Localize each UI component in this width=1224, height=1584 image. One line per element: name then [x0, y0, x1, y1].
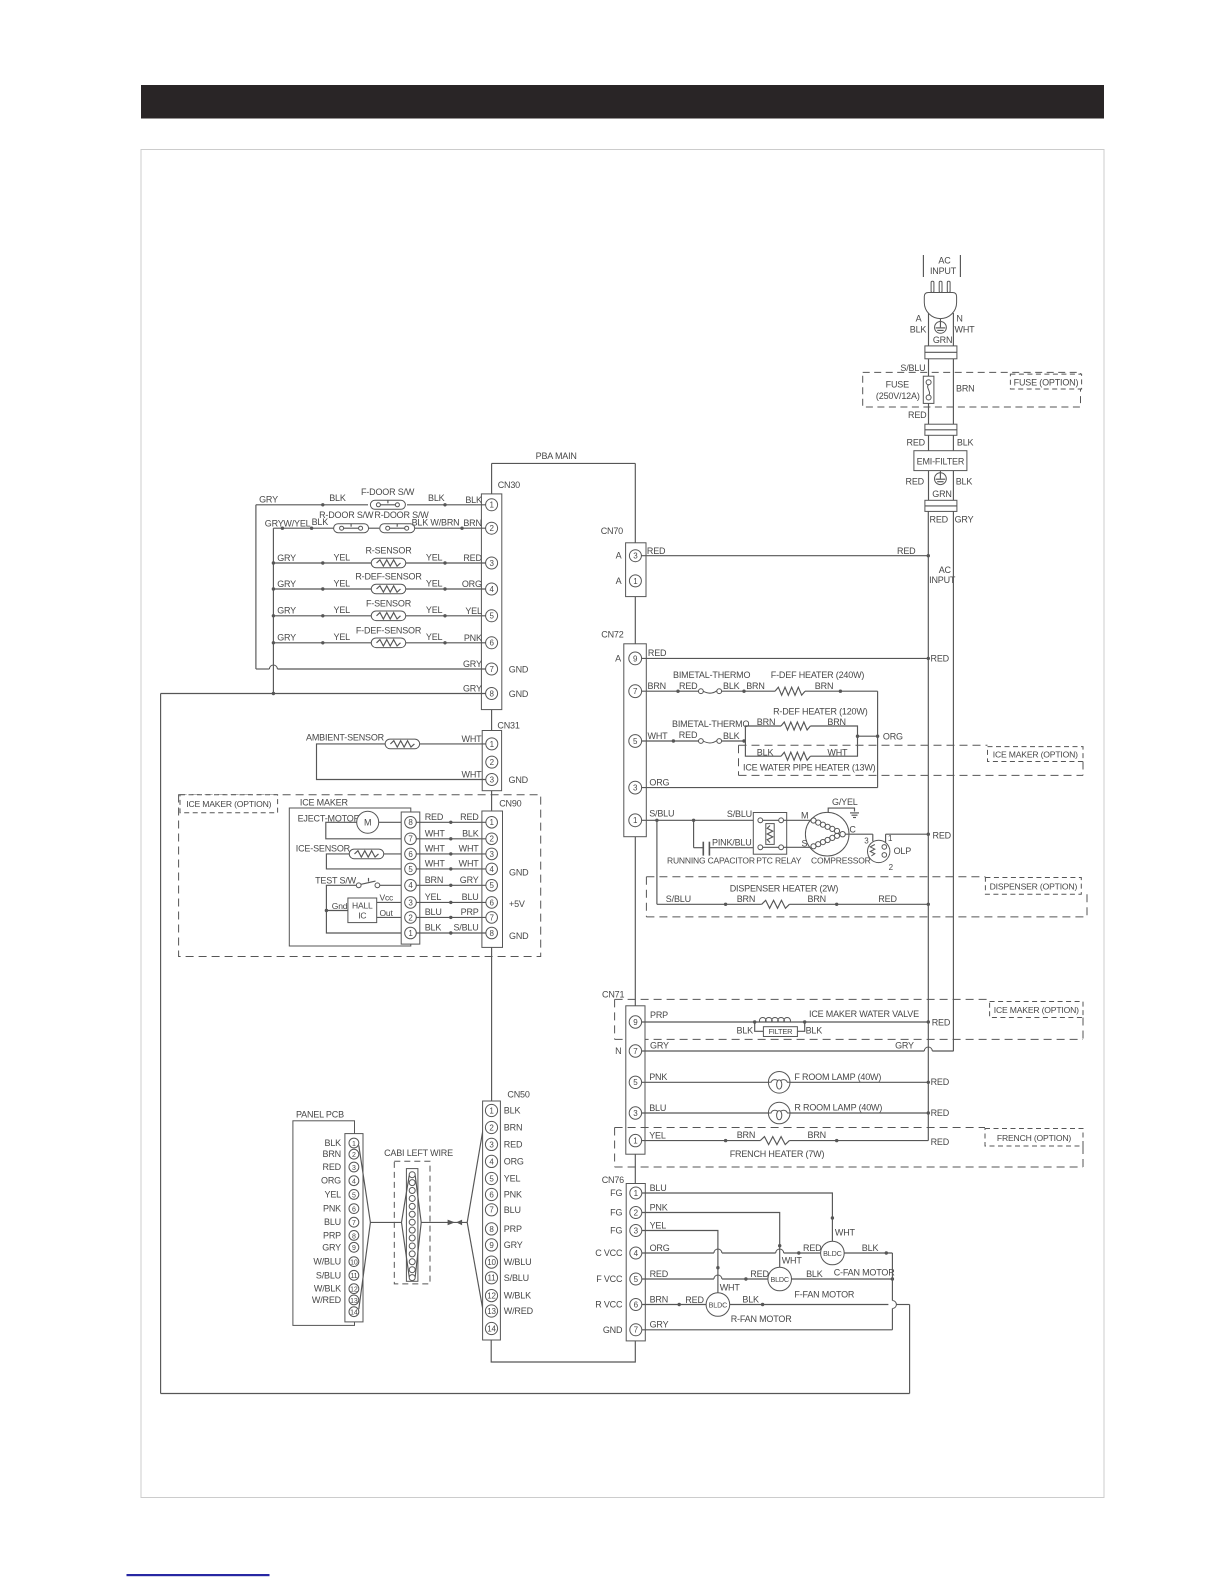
svg-text:1: 1	[408, 929, 413, 938]
wire GND GRY	[642, 1329, 893, 1331]
CN76 pins	[630, 1187, 642, 1336]
plug terminal labels	[910, 314, 975, 335]
bus B junctions	[272, 561, 275, 695]
svg-text:7: 7	[633, 687, 638, 696]
svg-text:YEL: YEL	[334, 605, 351, 615]
svg-text:(250V/12A): (250V/12A)	[876, 391, 920, 401]
svg-text:BRN: BRN	[815, 681, 833, 691]
svg-text:M: M	[801, 810, 808, 820]
compressor ground G/YEL	[828, 797, 859, 818]
svg-text:BLK: BLK	[757, 748, 774, 758]
label RED below fuse	[908, 410, 927, 420]
ICE MAKER OPTION label box	[180, 795, 278, 813]
svg-text:11: 11	[350, 1273, 357, 1280]
ICE MAKER OPTION label box 1	[988, 747, 1084, 762]
svg-text:A: A	[616, 551, 622, 561]
svg-text:GRN: GRN	[933, 335, 952, 345]
svg-text:RED: RED	[460, 812, 479, 822]
wire row6	[273, 641, 485, 644]
svg-text:BRN: BRN	[827, 717, 845, 727]
mating arrows	[448, 1220, 463, 1226]
ice maker connector body	[401, 812, 420, 944]
svg-text:W/BLU: W/BLU	[504, 1257, 532, 1267]
svg-text:2: 2	[408, 913, 413, 922]
svg-text:GRY: GRY	[259, 495, 278, 505]
svg-text:COMPRESSOR: COMPRESSOR	[811, 856, 871, 866]
svg-text:GND: GND	[509, 689, 529, 699]
wire thermo1 to heater	[722, 681, 775, 693]
svg-text:1: 1	[888, 834, 893, 843]
ice maker option zone 2 dashes	[615, 999, 1083, 1039]
svg-text:1: 1	[633, 1137, 638, 1146]
svg-text:4: 4	[634, 1249, 639, 1258]
svg-text:BLU: BLU	[649, 1103, 666, 1113]
svg-text:BRN: BRN	[808, 1130, 826, 1140]
connector CN72 body	[624, 644, 647, 837]
svg-text:PNK: PNK	[504, 1190, 522, 1200]
svg-text:BLK: BLK	[465, 495, 482, 505]
svg-text:GRY: GRY	[895, 1040, 914, 1050]
wire fuse to connector2	[928, 403, 930, 424]
svg-text:CN70: CN70	[601, 526, 623, 536]
FUSE option dashed box	[863, 372, 1081, 407]
svg-text:F-SENSOR: F-SENSOR	[366, 599, 412, 609]
motor R-FAN BLDC	[706, 1293, 792, 1324]
heater F-DEF HEATER 240W	[771, 670, 865, 695]
svg-text:8: 8	[489, 689, 494, 698]
svg-text:S/BLU: S/BLU	[727, 809, 752, 819]
svg-text:7: 7	[408, 835, 413, 844]
svg-text:R-DEF-SENSOR: R-DEF-SENSOR	[355, 572, 422, 582]
wire CN71-5 PNK	[642, 1072, 950, 1087]
svg-text:WHT: WHT	[720, 1282, 741, 1292]
svg-text:6: 6	[408, 850, 413, 859]
svg-text:PTC RELAY: PTC RELAY	[756, 856, 801, 866]
panel fan-in wires	[359, 1146, 402, 1310]
svg-text:2: 2	[634, 1208, 639, 1217]
svg-text:RED: RED	[931, 1077, 950, 1087]
FUSE OPTION label box	[1010, 374, 1081, 389]
svg-text:N: N	[615, 1046, 621, 1056]
motor F-FAN BLDC	[768, 1267, 855, 1299]
svg-text:F-FAN MOTOR: F-FAN MOTOR	[794, 1289, 855, 1299]
wire plug to connector1	[929, 313, 954, 346]
wire FG2 PNK	[642, 1213, 803, 1268]
label S/BLU	[900, 363, 925, 373]
svg-text:W/BLU: W/BLU	[313, 1257, 341, 1267]
svg-text:14: 14	[350, 1310, 358, 1317]
CABI LEFT WIRE dashed box	[394, 1161, 430, 1284]
svg-text:2: 2	[490, 835, 495, 844]
ambient sensor wires	[317, 744, 486, 780]
svg-text:5: 5	[489, 1174, 494, 1183]
row2 labels	[265, 517, 460, 529]
relay PTC RELAY	[753, 813, 801, 866]
svg-text:14: 14	[487, 1324, 496, 1333]
svg-text:YEL: YEL	[334, 552, 351, 562]
frame bottom wire	[161, 1393, 910, 1395]
svg-text:RED: RED	[750, 1269, 769, 1279]
row3 labels	[277, 552, 442, 562]
svg-text:WHT: WHT	[835, 1228, 856, 1238]
svg-text:5: 5	[633, 737, 638, 746]
lamp F ROOM LAMP 40W	[768, 1072, 881, 1094]
svg-text:2: 2	[352, 1152, 356, 1159]
wire F-FAN BLK	[792, 1269, 895, 1281]
svg-text:C: C	[849, 825, 856, 835]
svg-text:ICE MAKER (OPTION): ICE MAKER (OPTION)	[993, 750, 1078, 760]
svg-text:PRP: PRP	[650, 1010, 668, 1020]
heater ICE WATER PIPE HEATER 13W	[743, 748, 876, 773]
svg-text:BIMETAL-THERMO: BIMETAL-THERMO	[673, 670, 750, 680]
ICE MAKER label	[300, 797, 349, 807]
svg-text:13: 13	[350, 1298, 358, 1305]
wire CN72-5	[642, 730, 699, 743]
svg-text:RED: RED	[803, 1243, 822, 1253]
svg-text:CN50: CN50	[507, 1089, 529, 1099]
svg-text:HALL: HALL	[352, 901, 373, 911]
svg-text:6: 6	[352, 1207, 356, 1214]
connector block 2	[925, 424, 957, 435]
svg-text:4: 4	[490, 865, 495, 874]
svg-text:3: 3	[633, 784, 638, 793]
svg-text:RED: RED	[504, 1139, 523, 1149]
svg-text:BLK: BLK	[806, 1026, 823, 1036]
svg-text:YEL: YEL	[426, 632, 443, 642]
svg-text:WHT: WHT	[425, 859, 446, 869]
svg-text:5: 5	[634, 1275, 639, 1284]
svg-text:RED: RED	[932, 1017, 951, 1027]
svg-text:6: 6	[634, 1300, 639, 1309]
svg-text:GRY: GRY	[277, 606, 296, 616]
svg-text:F VCC: F VCC	[596, 1274, 623, 1284]
HALL IC	[348, 898, 377, 923]
FRENCH OPTION label box	[985, 1129, 1083, 1147]
svg-text:WHT: WHT	[462, 734, 483, 744]
CN70 A labels	[616, 551, 622, 586]
ICE MAKER OPTION label box 2	[990, 1002, 1083, 1018]
CN31 pins	[486, 738, 498, 786]
AC plug body	[924, 293, 956, 319]
R-DEF box tap wire	[856, 731, 903, 741]
svg-text:PRP: PRP	[461, 907, 479, 917]
svg-text:M: M	[364, 818, 371, 828]
svg-text:DISPENSER HEATER (2W): DISPENSER HEATER (2W)	[730, 883, 839, 893]
wire CN71-3 BLU	[642, 1103, 950, 1118]
svg-text:CN76: CN76	[602, 1175, 624, 1185]
svg-text:PANEL PCB: PANEL PCB	[296, 1109, 344, 1119]
svg-text:GRN: GRN	[932, 489, 951, 499]
svg-text:BLU: BLU	[462, 892, 479, 902]
svg-text:RED: RED	[908, 410, 927, 420]
PBA MAIN top edge	[492, 462, 636, 464]
svg-text:BRN: BRN	[425, 875, 443, 885]
sensor F-SENSOR	[366, 599, 412, 621]
svg-text:WHT: WHT	[459, 844, 480, 854]
sensor AMBIENT-SENSOR	[306, 732, 420, 748]
svg-text:8: 8	[490, 929, 495, 938]
svg-text:YEL: YEL	[649, 1130, 666, 1140]
svg-text:YEL: YEL	[425, 892, 442, 902]
svg-text:ORG: ORG	[650, 1243, 670, 1253]
fuse value label	[876, 379, 920, 401]
hall ic wires	[326, 892, 404, 918]
svg-text:R ROOM LAMP (40W): R ROOM LAMP (40W)	[794, 1103, 882, 1113]
connector CN76 label	[602, 1175, 624, 1185]
svg-text:CN31: CN31	[497, 720, 519, 730]
svg-text:8: 8	[408, 818, 413, 827]
wire row4	[273, 587, 485, 590]
cabi fan wires	[402, 1176, 468, 1277]
svg-text:RED: RED	[906, 476, 925, 486]
svg-text:FRENCH (OPTION): FRENCH (OPTION)	[997, 1133, 1071, 1143]
svg-text:WHT: WHT	[459, 859, 480, 869]
svg-text:ORG: ORG	[883, 731, 903, 741]
EMI-FILTER	[914, 451, 967, 471]
wire FG3 YEL	[642, 1231, 741, 1293]
svg-text:WHT: WHT	[955, 325, 976, 335]
svg-text:ICE MAKER WATER VALVE: ICE MAKER WATER VALVE	[809, 1009, 919, 1019]
svg-text:4: 4	[408, 881, 413, 890]
overload protector OLP	[845, 831, 951, 872]
row1 labels	[259, 493, 445, 505]
switch F-DOOR S/W	[361, 487, 415, 510]
valve ICE MAKER WATER VALVE coil	[759, 1009, 950, 1028]
AC INPUT label 2	[929, 565, 956, 585]
svg-text:3: 3	[408, 898, 413, 907]
CN50 pin labels	[504, 1106, 534, 1317]
svg-text:Gnd: Gnd	[332, 901, 348, 911]
wire CN72-7	[642, 681, 699, 693]
svg-text:IC: IC	[358, 911, 366, 921]
connector CN71 body	[626, 1006, 645, 1154]
svg-text:7: 7	[633, 1047, 638, 1056]
svg-text:BLK: BLK	[910, 325, 927, 335]
svg-text:9: 9	[633, 1018, 638, 1027]
svg-text:S/BLU: S/BLU	[316, 1270, 341, 1280]
switch TEST S/W	[315, 876, 380, 888]
svg-text:BLU: BLU	[504, 1205, 521, 1215]
svg-text:3: 3	[634, 1226, 639, 1235]
wire to fuse	[929, 359, 954, 424]
frame left wire	[160, 694, 162, 1394]
svg-text:RED: RED	[931, 654, 950, 664]
wire row3	[273, 561, 485, 564]
svg-text:7: 7	[634, 1326, 639, 1335]
svg-text:WHT: WHT	[425, 828, 446, 838]
svg-text:S/BLU: S/BLU	[666, 894, 691, 904]
svg-text:RED: RED	[930, 514, 949, 524]
svg-text:3: 3	[352, 1165, 356, 1172]
frame right wire	[909, 1305, 911, 1394]
CN72 A label	[615, 653, 621, 663]
svg-text:BRN: BRN	[808, 894, 826, 904]
svg-text:CN71: CN71	[602, 989, 624, 999]
ICE MAKER option dashed box	[179, 795, 541, 957]
svg-text:BLK: BLK	[723, 731, 740, 741]
svg-text:BLU: BLU	[425, 907, 442, 917]
svg-text:BRN: BRN	[650, 1294, 668, 1304]
svg-text:BLU: BLU	[650, 1183, 667, 1193]
connector CN70 body	[626, 543, 646, 597]
connector CN30 label	[498, 480, 520, 490]
wire row7	[256, 659, 486, 669]
connector block 1	[925, 346, 957, 359]
svg-text:6: 6	[489, 1190, 494, 1199]
svg-text:4: 4	[489, 1157, 494, 1166]
svg-text:1: 1	[352, 1141, 356, 1148]
svg-text:7: 7	[489, 665, 494, 674]
svg-text:W/YEL: W/YEL	[283, 518, 310, 528]
capacitor RUNNING CAPACITOR	[667, 820, 755, 865]
test switch wires	[325, 885, 405, 933]
svg-text:BRN: BRN	[737, 1130, 755, 1140]
connector CN31 body	[482, 731, 501, 791]
svg-text:TEST S/W: TEST S/W	[315, 876, 357, 886]
wire row2	[273, 527, 485, 530]
svg-text:6: 6	[489, 639, 494, 648]
ice maker option zone 1 dashes	[739, 745, 1084, 775]
thermo BIMETAL-THERMO 2	[672, 719, 749, 743]
svg-text:S/BLU: S/BLU	[504, 1273, 529, 1283]
svg-text:7: 7	[489, 1206, 494, 1215]
svg-text:GRY: GRY	[277, 553, 296, 563]
svg-text:BIMETAL-THERMO: BIMETAL-THERMO	[672, 719, 749, 729]
wire CN72-9 to RED bus	[642, 648, 950, 663]
svg-text:A: A	[615, 653, 621, 663]
labels RED BLK below EMI	[906, 476, 973, 486]
svg-text:FG: FG	[610, 1226, 622, 1236]
svg-text:PNK: PNK	[464, 633, 482, 643]
CN71 N label	[615, 1046, 621, 1056]
connector CN31 label	[497, 720, 519, 730]
svg-text:WHT: WHT	[425, 844, 446, 854]
svg-text:W/BLK: W/BLK	[314, 1284, 341, 1294]
svg-text:ORG: ORG	[504, 1156, 524, 1166]
svg-text:1: 1	[633, 577, 638, 586]
wire F VCC RED	[642, 1269, 770, 1281]
svg-text:PNK: PNK	[323, 1204, 341, 1214]
svg-text:RED: RED	[907, 437, 926, 447]
svg-text:W/RED: W/RED	[312, 1295, 342, 1305]
svg-text:CN30: CN30	[498, 480, 520, 490]
svg-text:BLK: BLK	[956, 476, 973, 486]
svg-text:R-SENSOR: R-SENSOR	[365, 546, 412, 556]
page border	[141, 150, 1104, 1498]
svg-text:EMI-FILTER: EMI-FILTER	[917, 456, 965, 466]
svg-text:2: 2	[889, 863, 894, 872]
wire C VCC ORG	[642, 1243, 822, 1255]
svg-text:BLK: BLK	[957, 437, 974, 447]
switch R-DOOR S/W 1	[319, 510, 374, 533]
svg-text:ICE MAKER: ICE MAKER	[300, 797, 349, 807]
heater FRENCH HEATER 7W	[730, 1130, 950, 1159]
svg-text:GRY: GRY	[277, 579, 296, 589]
svg-text:RED: RED	[647, 546, 666, 556]
svg-text:Vcc: Vcc	[380, 892, 395, 902]
svg-text:INPUT: INPUT	[930, 266, 957, 276]
svg-text:5: 5	[633, 1078, 638, 1087]
CABI LEFT WIRE label	[384, 1148, 453, 1158]
labels RED GRY below connector3	[930, 514, 974, 524]
wire thermo2 to R-DEF box	[722, 739, 746, 742]
svg-text:W/RED: W/RED	[504, 1306, 534, 1316]
svg-text:3: 3	[633, 552, 638, 561]
svg-text:12: 12	[350, 1287, 358, 1294]
svg-text:RED: RED	[685, 1295, 704, 1305]
AC INPUT label	[923, 255, 960, 277]
svg-text:BRN: BRN	[323, 1149, 341, 1159]
heater DISPENSER HEATER 2W	[657, 820, 930, 908]
svg-text:C VCC: C VCC	[595, 1248, 623, 1258]
svg-text:PRP: PRP	[504, 1224, 522, 1234]
plug prongs	[931, 281, 950, 292]
svg-text:1: 1	[490, 818, 495, 827]
svg-text:ORG: ORG	[321, 1176, 341, 1186]
svg-text:13: 13	[487, 1307, 496, 1316]
row5 labels	[277, 605, 442, 615]
svg-text:BLK: BLK	[462, 828, 479, 838]
svg-text:A: A	[916, 314, 922, 324]
CN90 pins	[486, 817, 498, 939]
svg-text:ICE MAKER (OPTION): ICE MAKER (OPTION)	[186, 799, 271, 809]
svg-text:BLK: BLK	[742, 1295, 759, 1305]
svg-text:AC: AC	[938, 256, 951, 266]
cabi connector pins	[409, 1172, 415, 1281]
compressor motor	[801, 810, 871, 865]
svg-text:5: 5	[408, 865, 413, 874]
svg-text:A: A	[616, 576, 622, 586]
PANEL PCB connector body	[345, 1134, 363, 1322]
cabi connector body	[406, 1169, 418, 1282]
GRY bus A	[255, 505, 257, 669]
svg-text:GRY: GRY	[955, 514, 974, 524]
svg-text:OLP: OLP	[894, 846, 912, 856]
wire C-FAN BLK	[844, 1243, 892, 1255]
svg-text:3: 3	[490, 850, 495, 859]
DISPENSER OPTION label box	[985, 878, 1081, 895]
thermo BIMETAL-THERMO 1	[673, 670, 750, 694]
svg-text:2: 2	[490, 758, 495, 767]
svg-text:G/YEL: G/YEL	[832, 797, 858, 807]
svg-text:FUSE (OPTION): FUSE (OPTION)	[1014, 377, 1079, 387]
CN76 wire labels	[650, 1183, 670, 1330]
wire CN71-9 PRP	[642, 1010, 929, 1024]
svg-text:RED: RED	[878, 894, 897, 904]
connector CN50 body	[483, 1101, 501, 1340]
svg-text:GRY: GRY	[463, 659, 482, 669]
svg-text:GND: GND	[509, 931, 529, 941]
GRY neutral bus	[952, 511, 954, 1051]
svg-text:S/BLU: S/BLU	[900, 363, 925, 373]
row4 labels	[277, 578, 442, 588]
svg-text:F-DOOR S/W: F-DOOR S/W	[361, 487, 415, 497]
R-DEF heater box	[745, 726, 857, 756]
svg-text:R VCC: R VCC	[595, 1300, 623, 1310]
svg-text:1: 1	[489, 501, 494, 510]
svg-text:GRY: GRY	[650, 1040, 669, 1050]
svg-text:BRN: BRN	[504, 1123, 522, 1133]
CN30 pin wire labels	[462, 495, 483, 643]
svg-text:FRENCH HEATER (7W): FRENCH HEATER (7W)	[730, 1149, 825, 1159]
svg-text:GRY: GRY	[504, 1240, 523, 1250]
svg-text:YEL: YEL	[325, 1189, 342, 1199]
svg-text:BRN: BRN	[737, 894, 755, 904]
svg-text:7: 7	[352, 1220, 356, 1227]
CN30 pins 1-8	[486, 499, 498, 700]
CN90 side labels	[509, 868, 529, 941]
label BRN	[956, 384, 974, 394]
